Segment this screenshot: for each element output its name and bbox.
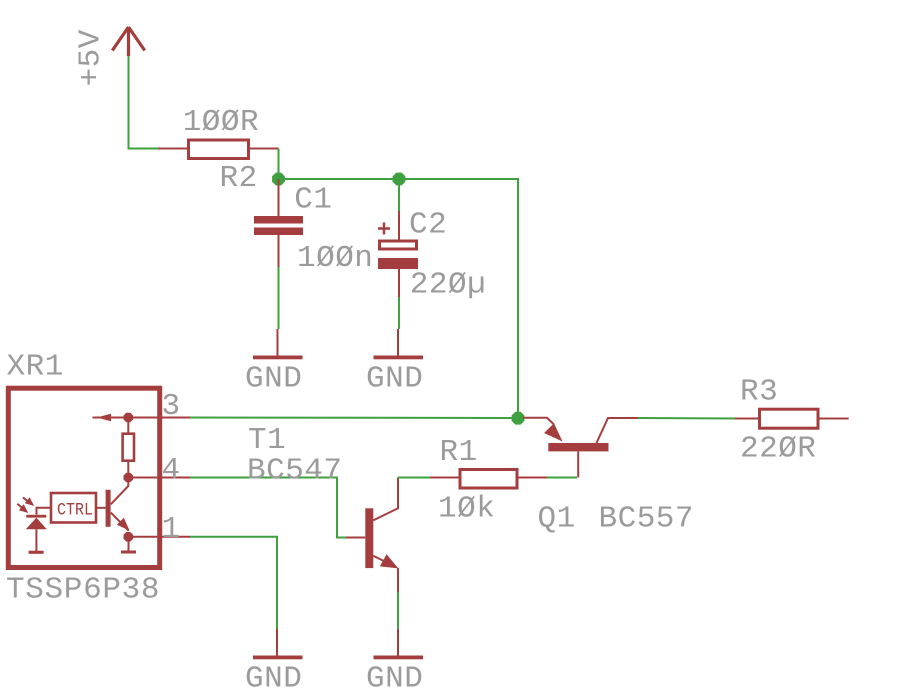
XR1 internal transistor bbox=[106, 478, 130, 531]
XR1 pin 4 stub bbox=[160, 477, 190, 479]
svg-text:22ØR: 22ØR bbox=[740, 432, 816, 467]
XR1 pin 3 stub bbox=[160, 417, 190, 419]
XR1 internal output arrow bbox=[93, 414, 161, 422]
XR1 internal ground stub (transistor) bbox=[121, 537, 136, 554]
wire T1 collector to R1 bbox=[398, 477, 430, 479]
svg-text:1Øk: 1Øk bbox=[438, 492, 495, 527]
svg-text:R3: R3 bbox=[740, 375, 778, 410]
XR1 internal node (emitter/pin1) bbox=[124, 532, 134, 542]
wire pin3 to node C bbox=[190, 417, 518, 420]
resistor R1 bbox=[430, 470, 547, 489]
XR1 internal node (resistor/collector/pin4) bbox=[124, 473, 134, 483]
wire node B to C2 bbox=[398, 179, 400, 211]
XR1 light arrow lower bbox=[17, 504, 28, 513]
svg-text:22Øµ: 22Øµ bbox=[410, 268, 486, 303]
resistor R2 bbox=[158, 140, 279, 159]
XR1 photodiode bbox=[26, 515, 47, 554]
transistor T1 bbox=[346, 478, 398, 593]
ground GND under C2 bbox=[374, 329, 424, 359]
svg-text:4: 4 bbox=[162, 453, 181, 488]
svg-text:BC557: BC557 bbox=[599, 502, 695, 537]
wire T1 emitter to ground bbox=[397, 592, 399, 629]
XR1 wire CTRL to photodiode bbox=[37, 508, 52, 515]
wire Q1 collector to R3 bbox=[638, 417, 735, 420]
svg-text:GND: GND bbox=[366, 362, 423, 397]
ground GND under C1 bbox=[253, 329, 303, 359]
XR1 wire CTRL to base bbox=[96, 507, 106, 509]
XR1 light arrow upper bbox=[23, 497, 34, 506]
svg-text:C2: C2 bbox=[409, 208, 447, 243]
XR1 internal wire pin4 bbox=[129, 477, 160, 479]
XR1 internal wire pin1 bbox=[129, 536, 161, 538]
node A junction bbox=[272, 173, 285, 186]
svg-text:XR1: XR1 bbox=[7, 350, 64, 385]
wire R2 to node A bbox=[278, 149, 280, 177]
svg-text:GND: GND bbox=[245, 362, 302, 397]
resistor R3 bbox=[735, 409, 849, 428]
svg-text:BC547: BC547 bbox=[247, 454, 343, 489]
ground GND under T1 bbox=[374, 629, 424, 659]
wire C2 to ground bbox=[398, 297, 400, 329]
node B junction bbox=[393, 173, 406, 186]
wire C1 to ground bbox=[278, 267, 280, 329]
svg-text:C1: C1 bbox=[294, 183, 332, 218]
node C junction bbox=[512, 412, 525, 425]
svg-text:R1: R1 bbox=[440, 435, 478, 470]
XR1 pin 1 stub bbox=[160, 536, 190, 538]
wire node B to node C bbox=[399, 179, 518, 418]
svg-text:R2: R2 bbox=[220, 161, 258, 196]
svg-text:3: 3 bbox=[162, 389, 181, 424]
svg-text:Q1: Q1 bbox=[538, 502, 576, 537]
wire R1 to Q1 base bbox=[547, 477, 577, 479]
ground GND bottom left bbox=[253, 629, 303, 659]
wire +5V to R2 bbox=[129, 56, 159, 149]
svg-text:TSSP6P38: TSSP6P38 bbox=[6, 573, 160, 608]
wire node A to node B bbox=[279, 178, 400, 180]
XR1 CTRL block bbox=[51, 493, 96, 523]
XR1 internal node (arrow/resistor) bbox=[124, 413, 134, 423]
supply +5V symbol bbox=[112, 27, 144, 56]
wire pin4 to T1 base bbox=[190, 478, 346, 538]
transistor Q1 bbox=[523, 418, 638, 478]
capacitor C1 bbox=[254, 179, 303, 267]
svg-text:GND: GND bbox=[366, 662, 423, 697]
svg-text:1ØØn: 1ØØn bbox=[297, 241, 373, 276]
svg-text:1: 1 bbox=[162, 512, 181, 547]
svg-text:GND: GND bbox=[245, 662, 302, 697]
IC XR1 box bbox=[8, 388, 159, 567]
wire pin1 to ground bbox=[190, 537, 277, 629]
capacitor C2 bbox=[378, 211, 418, 297]
svg-text:CTRL: CTRL bbox=[57, 501, 93, 521]
svg-text:+5V: +5V bbox=[74, 29, 109, 86]
svg-text:1ØØR: 1ØØR bbox=[183, 105, 259, 140]
XR1 internal resistor bbox=[123, 418, 134, 478]
